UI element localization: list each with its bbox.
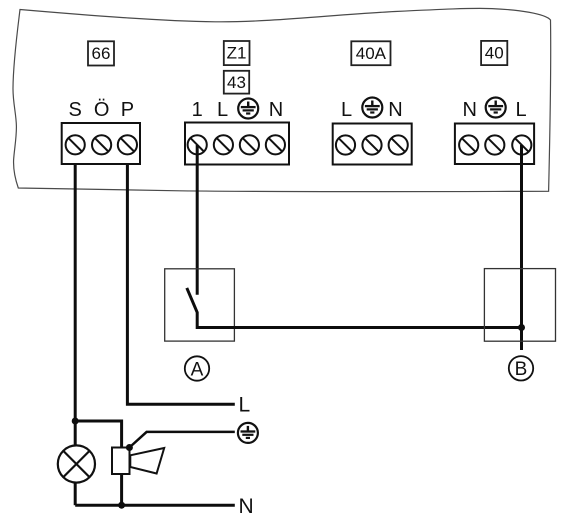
svg-text:1: 1 [192,99,203,121]
node label A [185,356,209,380]
label box 66 [88,41,114,65]
switch in box A and wire to box B [187,288,522,328]
svg-text:N: N [388,99,402,121]
terminal block 40A (L PE N) [333,124,412,165]
horn cone [130,448,164,474]
wire horn to N line [120,474,123,505]
earth wire from horn [129,432,234,448]
svg-text:L: L [239,393,251,416]
wire lamp to N line [74,483,77,506]
PE symbol (block 40A) [362,98,382,118]
lamp symbol [58,445,95,482]
label N (neutral) [239,495,254,518]
junction dot on wire S [72,418,79,425]
junction dot at horn top [126,444,133,451]
svg-text:A: A [191,359,204,380]
svg-text:L: L [341,99,352,121]
wire branch to horn [75,421,121,448]
svg-text:40: 40 [485,44,504,63]
wire segment 1 into block (over screw) [196,145,199,164]
svg-text:Ö: Ö [94,99,110,121]
PE symbol (block 40) [486,98,506,118]
junction dot on N line [118,502,125,509]
terminal block Z1/43 (1 L PE N) [185,123,289,165]
PE symbol (block Z1/43) [238,99,258,119]
svg-text:66: 66 [92,44,111,63]
terminal block 66 (S Ö P) [62,123,140,164]
panel outline [13,8,551,191]
wire 1 (terminal 1 down into box A) [196,145,199,295]
box B [484,269,555,342]
svg-text:N: N [239,495,254,518]
wire S (terminal S down to lamp) [74,164,77,446]
terminal labels S Ö P [69,99,135,121]
svg-text:43: 43 [227,73,246,92]
svg-text:N: N [269,99,283,121]
node label B [509,356,533,380]
horn body [112,448,130,475]
box A [165,269,235,341]
svg-text:L: L [515,99,526,121]
terminal block 40 (N PE L) [455,124,534,165]
svg-text:Z1: Z1 [227,44,247,63]
label box 40 [481,41,507,65]
wire segment B into block (over screw) [520,145,523,164]
terminal labels 1 L N (block Z1/43) [192,99,284,121]
svg-text:S: S [69,99,82,121]
wire P (terminal P down, right to L) [127,164,234,404]
svg-text:L: L [217,99,228,121]
PE symbol (earth of horn) [238,423,258,443]
label box 40A [351,41,390,65]
junction dot in box B [518,324,525,331]
label box 43 [224,71,249,94]
label L (live) [239,393,251,416]
label box Z1 [224,41,250,65]
svg-text:N: N [462,99,476,121]
terminal labels N L (block 40) [462,99,526,121]
wire B (terminal L of block 40 down through box B) [520,145,523,350]
N line wire [75,504,235,507]
svg-text:P: P [121,99,134,121]
svg-text:40A: 40A [356,44,387,63]
svg-text:B: B [515,359,528,380]
terminal labels L N (block 40A) [341,99,403,121]
